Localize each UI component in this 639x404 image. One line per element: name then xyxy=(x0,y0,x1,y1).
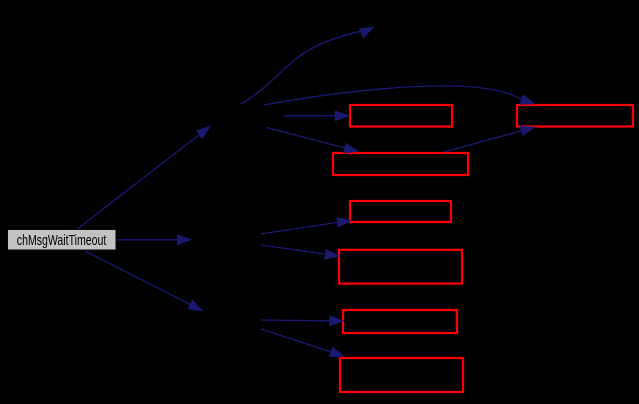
node box5 (red, truncated callee) xyxy=(343,310,457,333)
edge box2->right box xyxy=(444,126,536,152)
node box3 (red, truncated callee) xyxy=(350,201,451,222)
node box6 (red, truncated callee) xyxy=(340,358,463,392)
edge middle hub->box4 xyxy=(261,245,340,260)
node box1 (red, truncated callee) xyxy=(350,105,452,127)
svg-text:chMsgWaitTimeout: chMsgWaitTimeout xyxy=(17,232,107,249)
node box2 (red, truncated callee) xyxy=(333,153,468,175)
node right box (red, truncated callee) xyxy=(517,105,633,127)
edge lower hub->box6 xyxy=(261,329,345,357)
edge chMsgWaitTimeout->middle hub xyxy=(117,234,192,245)
edge chMsgWaitTimeout->lower hub xyxy=(85,251,204,311)
edge upper hub->right box (long arc) xyxy=(264,86,536,105)
node box4 (red, truncated callee) xyxy=(339,250,462,284)
edge chMsgWaitTimeout->upper hub xyxy=(78,126,211,229)
edge lower hub->box5 xyxy=(261,315,345,326)
edge middle hub->box3 xyxy=(261,217,352,234)
edge upper hub->top node (curved) xyxy=(241,26,375,104)
edge upper hub->box1 xyxy=(284,110,350,121)
edge upper hub->box2 top xyxy=(267,128,360,154)
node chMsgWaitTimeout (current function, grey) xyxy=(8,230,117,251)
